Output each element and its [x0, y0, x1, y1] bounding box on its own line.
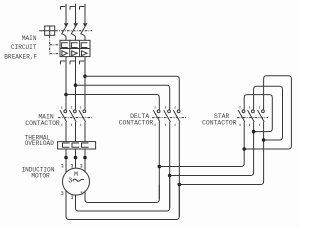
main contactor K1 pole 3 fixed contact [83, 110, 86, 113]
breaker F bottom terminal mark pole 2 [70, 61, 75, 64]
breaker F pole 3 thermal element [81, 43, 87, 48]
node junction star pole 1 [242, 147, 246, 151]
breaker F pole 3 blade [81, 23, 87, 40]
node L1 supply terminal mark [61, 7, 66, 10]
breaker F linkage dash-dot to blades [55, 30, 92, 32]
node junction star pole 2 [252, 130, 256, 134]
wire star pole 3 top loop to pole 1 junction [244, 76, 291, 149]
node junction delta pole 2 [168, 174, 172, 178]
node junction delta pole 3 [178, 183, 182, 187]
svg-text:CONTACTOR: CONTACTOR [119, 120, 154, 127]
breaker F pole 3 magnetic trip [82, 51, 88, 56]
breaker F pole 2 magnetic trip [72, 51, 78, 56]
wire star pole 1 top loop to pole 2 junction [244, 95, 272, 132]
pin marks delta contactor K2 [155, 106, 175, 126]
thermal overload relay body [58, 142, 96, 149]
motor M1 label M [74, 171, 78, 179]
svg-text:MOTOR: MOTOR [31, 172, 50, 179]
breaker F pole 2 blade [71, 23, 77, 40]
wire delta pole 1 junction to star pole 1 bottom [159, 122, 244, 167]
wire delta pole 2 junction to star pole 2 bottom [170, 122, 254, 176]
wire breaker to main contactor pole 3 [84, 57, 86, 110]
svg-text:MAIN: MAIN [22, 35, 37, 42]
wire feeder phase 2 to delta contactor [76, 85, 170, 109]
motor M1 phase wave symbol [73, 179, 84, 181]
wire motor W2 to delta contactor pole 3 [66, 185, 179, 220]
wire feeder phase 1 to delta contactor [66, 95, 159, 110]
node L3 supply terminal mark [80, 7, 85, 10]
pin V2 label mark [80, 191, 82, 195]
wire feeder phase 3 to delta contactor [85, 76, 179, 109]
svg-text:CONTACTOR: CONTACTOR [25, 120, 60, 127]
node L2 supply terminal mark [70, 7, 75, 10]
breaker F operator box [39, 26, 55, 35]
svg-text:M: M [74, 171, 78, 179]
svg-text:CIRCUIT: CIRCUIT [11, 44, 37, 51]
delta contactor K2 pole 3 fixed contact [177, 110, 180, 113]
motor M1 label 3 [68, 178, 72, 186]
motor M1 body [63, 168, 90, 195]
node junction phase 3 feeder [83, 74, 87, 78]
wire motor V2 to delta contactor pole 1 [85, 185, 159, 203]
breaker F pole 1 blade [62, 23, 68, 40]
wire overload to motor pole 2 [75, 149, 77, 168]
delta contactor K2 pole 2 blade [164, 110, 171, 122]
main circuit breaker F body [60, 40, 90, 56]
breaker F pole 3 contact arrow [83, 23, 87, 27]
label main circuit breaker F [4, 35, 37, 61]
main contactor K1 pole 2 fixed contact [73, 110, 76, 113]
breaker F trip linkage lower [50, 53, 61, 55]
pin U1 label mark [61, 164, 63, 168]
breaker F pole 1 contact arrow [64, 23, 68, 27]
label star contactor [202, 113, 237, 127]
node junction phase 1 feeder [64, 93, 68, 97]
wire overload to motor pole 1 [65, 149, 67, 172]
pin marks main contactor K1 [62, 106, 81, 126]
svg-text:CONTACTOR: CONTACTOR [202, 120, 237, 127]
main contactor K1 pole 2 blade [70, 110, 77, 122]
node junction delta pole 1 [158, 165, 162, 169]
label main contactor [25, 113, 60, 127]
svg-text:BREAKER,F: BREAKER,F [4, 54, 37, 61]
main contactor K1 linkage dash-dot [58, 117, 92, 119]
pin marks star contactor K3 [240, 106, 259, 126]
node junction phase 2 feeder [74, 83, 78, 87]
pin W2 label mark [61, 191, 63, 195]
star contactor K3 pole 2 blade [248, 110, 255, 122]
label delta contactor [119, 113, 154, 127]
breaker F pole 1 thermal element [62, 43, 68, 48]
star contactor K3 pole 3 fixed contact [262, 110, 265, 113]
wire L3 drop to breaker [84, 4, 86, 24]
pin V1 label mark [71, 164, 73, 168]
node junction star pole 3 [262, 138, 266, 142]
breaker F bottom terminal mark pole 3 [80, 61, 85, 64]
label thermal overload [25, 134, 55, 147]
star contactor K3 linkage dash-dot [237, 117, 268, 119]
star contactor K3 pole 2 fixed contact [252, 110, 255, 113]
breaker F pole 2 thermal element [71, 43, 77, 48]
delta contactor K2 pole 1 fixed contact [157, 110, 160, 113]
star contactor K3 pole 1 blade [238, 110, 245, 122]
label induction motor [21, 166, 54, 179]
breaker F trip linkage upper [50, 44, 61, 46]
breaker F linkage dash-dot down [49, 36, 51, 54]
wire main contactor to overload pole 2 [75, 122, 77, 142]
main contactor K1 pole 1 blade [60, 110, 67, 122]
wire motor U2 to delta contactor pole 2 [76, 176, 170, 212]
delta contactor K2 pole 3 blade [173, 110, 180, 122]
wire L2 drop to breaker [75, 4, 77, 24]
pin W1 label mark [80, 164, 82, 168]
wire star pole 2 top loop to pole 3 junction [254, 86, 283, 140]
wire overload to motor pole 3 [84, 149, 86, 172]
breaker F pole 2 contact arrow [73, 23, 77, 27]
breaker F bottom terminal mark pole 1 [61, 61, 66, 64]
delta contactor K2 linkage dash-dot [152, 117, 186, 119]
svg-text:3: 3 [68, 178, 72, 186]
wire breaker to main contactor pole 1 [65, 57, 67, 110]
node junction motor V1 [74, 156, 78, 160]
svg-text:OVERLOAD: OVERLOAD [25, 140, 55, 147]
delta contactor K2 pole 2 fixed contact [168, 110, 171, 113]
overload heater pole 1 [63, 143, 70, 147]
wire breaker to main contactor pole 2 [75, 57, 77, 110]
wire main contactor to overload pole 1 [65, 122, 67, 142]
pin U2 label mark [71, 195, 73, 199]
delta contactor K2 pole 1 blade [153, 110, 160, 122]
node junction motor W1 [83, 156, 87, 160]
main contactor K1 pole 1 fixed contact [64, 110, 67, 113]
overload heater pole 3 [82, 143, 89, 147]
wire delta pole 2 lower [169, 122, 171, 208]
node junction motor U1 [64, 156, 68, 160]
wire L1 drop to breaker [65, 4, 67, 24]
star contactor K3 pole 3 blade [258, 110, 265, 122]
wire delta pole 1 lower [158, 122, 160, 200]
breaker F pole 1 magnetic trip [62, 51, 68, 56]
wire delta pole 3 lower [178, 122, 180, 217]
star contactor K3 pole 1 fixed contact [242, 110, 245, 113]
wire main contactor to overload pole 3 [84, 122, 86, 142]
main contactor K1 pole 3 blade [79, 110, 86, 122]
wire delta pole 3 junction to star pole 3 bottom [179, 122, 263, 185]
overload heater pole 2 [72, 143, 79, 147]
